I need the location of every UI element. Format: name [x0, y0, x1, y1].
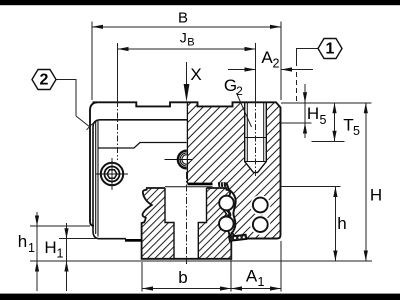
H1 top ext line	[59, 238, 97, 240]
dim h1 line	[36, 212, 38, 291]
svg-text:1: 1	[326, 41, 335, 58]
H5 bottom ext line	[281, 122, 312, 124]
callout 2 leader vertical part	[56, 80, 76, 117]
rail ridge chevron marks between load balls	[221, 206, 230, 222]
h top ext line	[281, 186, 341, 188]
svg-text:A: A	[261, 48, 273, 67]
b ext lines	[141, 262, 143, 292]
diagonal leader lines	[76, 93, 252, 130]
T5 bottom ext line	[312, 140, 345, 142]
rail centerline	[186, 172, 188, 264]
seal wedge pieces	[218, 182, 226, 187]
A1 arrows	[231, 286, 242, 290]
top surface extension right	[281, 102, 372, 104]
top letterbox bar	[0, 0, 400, 5]
dim A1 line	[231, 288, 281, 290]
X section arrow line	[186, 62, 188, 99]
rail outline stroke	[142, 188, 232, 259]
svg-text:B: B	[178, 9, 188, 26]
ball lower right	[253, 217, 268, 232]
ball upper left	[219, 196, 234, 211]
dim T5 line	[334, 103, 336, 142]
dim B line	[92, 26, 281, 28]
h1 arrows outside	[35, 216, 39, 227]
b arrows	[142, 286, 153, 290]
ball lower left	[219, 217, 234, 232]
callout hexagon 2	[32, 70, 56, 90]
side view screw hole with hex socket	[96, 158, 128, 190]
svg-text:5: 5	[353, 124, 360, 138]
G2 leader	[237, 93, 252, 127]
dim b line	[142, 288, 231, 290]
dim JB ext lines	[117, 43, 119, 101]
callout hexagon 1	[318, 39, 342, 59]
svg-text:1: 1	[258, 275, 265, 289]
svg-text:1: 1	[28, 241, 35, 255]
lower seal strip with retainer (checkered)	[229, 234, 247, 241]
svg-text:b: b	[178, 268, 187, 287]
dim h line	[334, 187, 336, 262]
svg-text:h: h	[337, 214, 346, 233]
carriage section hatched body	[187, 102, 281, 238]
h1 top ext line	[30, 225, 90, 227]
arrowheads	[35, 25, 368, 291]
T5 arrows inside	[332, 103, 336, 114]
svg-text:h: h	[18, 232, 27, 251]
svg-text:J: J	[180, 30, 187, 46]
rail hatched cross-section with bolt hole	[142, 188, 232, 259]
dim H1 line	[66, 223, 68, 291]
side view lube port semicircles on centerline	[165, 151, 193, 169]
left lower seal bar	[125, 239, 142, 242]
svg-text:G: G	[224, 76, 237, 95]
svg-text:A: A	[246, 266, 258, 285]
svg-text:2: 2	[236, 84, 243, 98]
seal underside line	[165, 186, 213, 188]
H arrows	[364, 103, 368, 114]
callout 2 leader diagonal with end tick	[76, 116, 91, 128]
H5 arrows outside	[303, 92, 307, 103]
side view end plate contours	[93, 120, 187, 239]
carriage raceway outline right of load balls	[226, 183, 235, 237]
dim H5 line	[304, 84, 306, 138]
G2 threaded hole walls	[245, 102, 267, 172]
h arrows	[333, 187, 337, 198]
svg-text:H: H	[370, 186, 382, 205]
svg-text:5: 5	[320, 113, 327, 127]
seal bar under carriage	[188, 183, 213, 186]
dim JB line	[118, 48, 256, 50]
dim B ext lines	[91, 22, 93, 101]
H1 arrows outside	[64, 228, 68, 239]
bottom letterbox bar	[0, 294, 400, 300]
section dividing line X plane	[186, 102, 188, 183]
dim A2 lines	[228, 69, 256, 71]
JB arrows	[118, 47, 129, 51]
X arrow	[184, 84, 190, 102]
ball upper right	[253, 198, 268, 213]
svg-text:1: 1	[57, 247, 64, 261]
svg-text:X: X	[190, 65, 201, 84]
svg-text:B: B	[187, 37, 194, 49]
carriage outline top edge with notches and right edge	[93, 102, 281, 238]
svg-text:H: H	[307, 104, 319, 123]
svg-text:H: H	[44, 238, 56, 257]
A1 ext line	[280, 241, 282, 292]
carriage outer left rounded corner and left edge (side view shell)	[90, 102, 97, 226]
svg-text:2: 2	[40, 72, 49, 89]
G2 hole centerline	[255, 101, 257, 176]
ground baseline	[30, 260, 372, 262]
A2 arrows outside	[245, 67, 256, 71]
callout 1 leader	[297, 49, 319, 67]
svg-text:2: 2	[273, 57, 280, 71]
B arrows	[92, 25, 103, 29]
rail bolt hole walls	[165, 188, 207, 259]
dim H line	[365, 103, 367, 261]
